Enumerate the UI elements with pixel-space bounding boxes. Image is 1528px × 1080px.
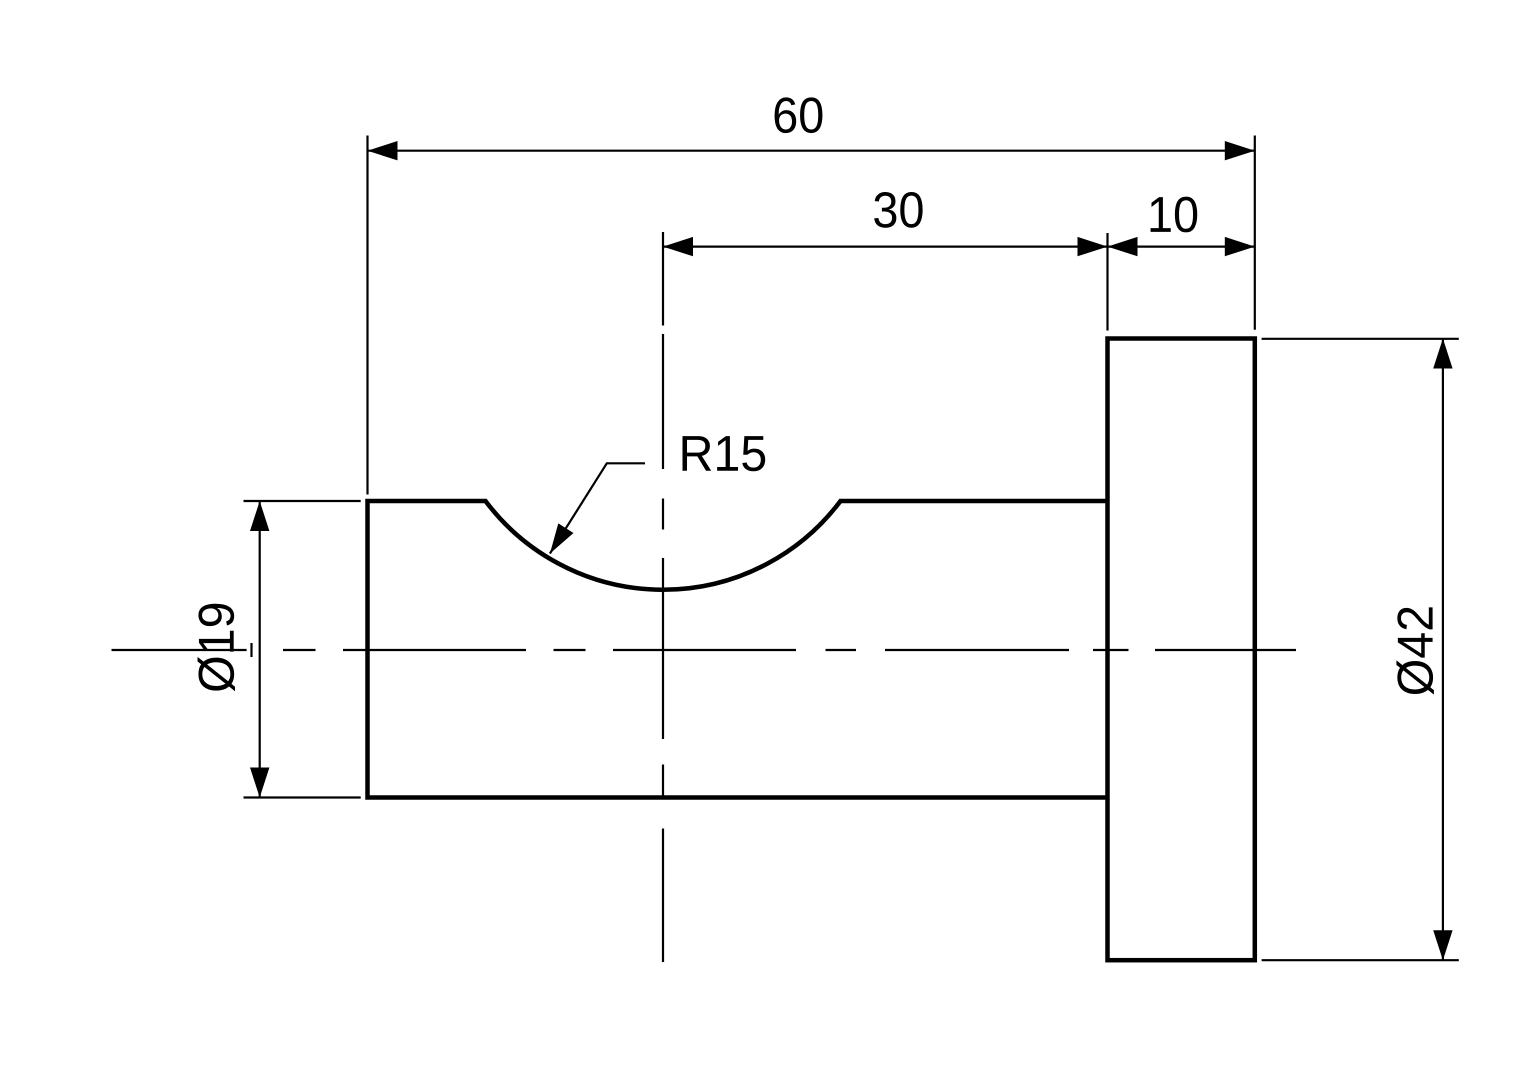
dimension 10: arrow right (1225, 237, 1255, 256)
dimension O19: arrow up (250, 501, 269, 531)
dimension O19: dimension line (259, 501, 261, 798)
dimension 30: arrow right (1078, 237, 1108, 256)
part outline: shaft body with R15 concave cut (368, 501, 1108, 798)
dimension O19: arrow down (250, 768, 269, 798)
dimension 60: dimension line (368, 150, 1255, 152)
dimension 60: text (775, 97, 823, 133)
centerline tick near O19 dimension line (250, 643, 252, 657)
horizontal centerline (dash-dot) (112, 649, 1297, 651)
dimension 60: arrow left (368, 141, 398, 160)
part outline: flange rectangle (1108, 339, 1255, 961)
dimension O42: arrow down (1433, 930, 1452, 960)
dimension 30: dimension line (663, 246, 1108, 248)
dimension 30/10: extension line at flange left (1106, 233, 1108, 331)
dimension O42: text (rotated) (1396, 607, 1433, 694)
dimension O19: text (rotated) (198, 604, 235, 691)
dimension 60 / 10: extension line right (1254, 136, 1256, 330)
dimension O42: dimension line (1442, 339, 1444, 961)
dimension O42: arrow up (1433, 339, 1452, 369)
leader R15: arrowhead (550, 523, 574, 553)
dimension O19: extension line bottom (244, 796, 361, 798)
dimension 60: arrow right (1225, 141, 1255, 160)
label R15: text (683, 436, 766, 471)
dimension O19: extension line top (244, 500, 361, 502)
vertical centerline (dash-dot) (662, 232, 664, 962)
dimension 10: text (1151, 197, 1198, 233)
dimension 10: arrow left (1108, 237, 1138, 256)
leader R15: polyline (550, 463, 645, 553)
dimension O42: extension line bottom (1262, 959, 1459, 961)
dimension 30: arrow left (663, 237, 693, 256)
dimension 30: text (874, 192, 922, 228)
dimension 10: dimension line (1108, 246, 1255, 248)
dimension 60: extension line left (366, 136, 368, 495)
dimension O42: extension line top (1262, 338, 1459, 340)
